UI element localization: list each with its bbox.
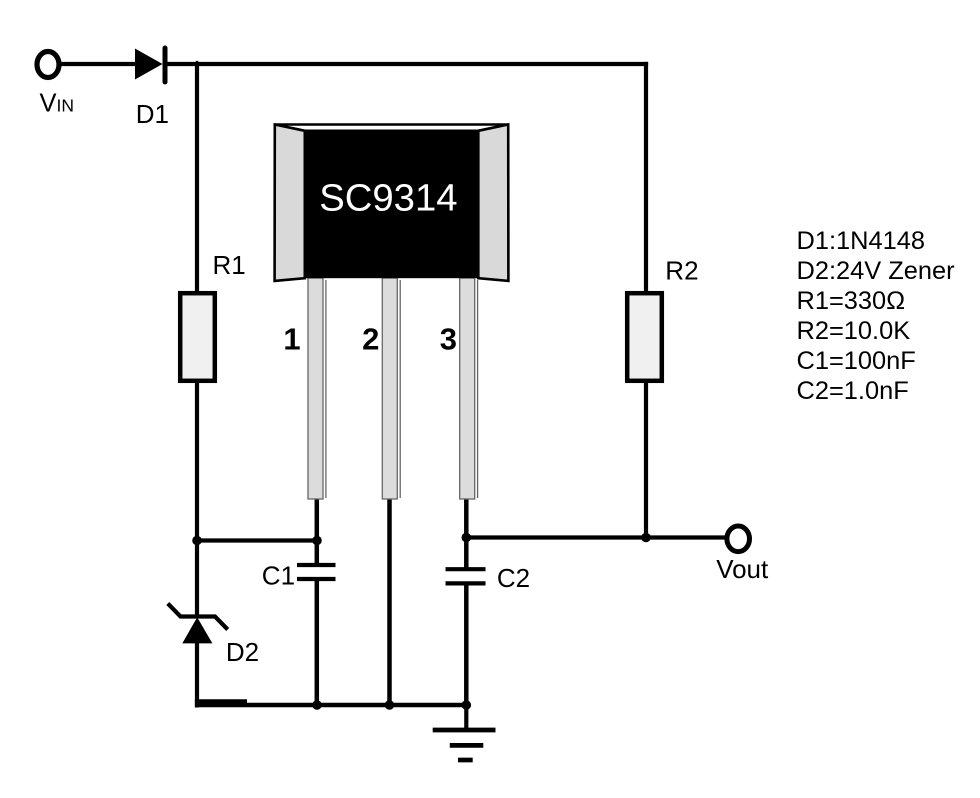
wire R2 bottom to Vout junction <box>644 383 648 538</box>
wire pin2 down <box>387 497 392 705</box>
package top face <box>275 125 508 131</box>
svg-text:Vout: Vout <box>716 554 769 584</box>
resistor R2 <box>627 293 662 381</box>
wire bottom rail <box>195 703 466 708</box>
svg-text:C2: C2 <box>497 563 530 593</box>
pin 1 <box>308 278 326 499</box>
svg-text:D1: D1 <box>136 99 169 129</box>
IC U1 SC9314 package <box>275 125 509 500</box>
wire R1 bottom to D2 <box>195 383 199 617</box>
terminal Vout <box>727 526 750 552</box>
node junction pin2/bottom <box>385 700 395 710</box>
resistor R1 <box>180 293 215 381</box>
wire pin1 down (above C1) <box>315 497 320 565</box>
svg-text:SC9314: SC9314 <box>319 177 457 220</box>
svg-text:C2=1.0nF: C2=1.0nF <box>797 377 909 405</box>
values text block <box>797 227 956 405</box>
wire C1 to bottom <box>315 579 320 705</box>
svg-text:D2: D2 <box>226 637 259 667</box>
wire junction to Vout terminal <box>646 535 726 539</box>
node junction pin1/C1 <box>312 536 322 546</box>
wire top-right corner down to R2 <box>644 62 648 293</box>
node junction R2/Vout <box>641 533 651 543</box>
svg-text:C1=100nF: C1=100nF <box>797 347 916 375</box>
svg-text:2: 2 <box>362 322 379 357</box>
svg-text:D2:24V Zener: D2:24V Zener <box>797 257 956 285</box>
pin 3 <box>460 278 478 499</box>
svg-text:R2=10.0K: R2=10.0K <box>797 317 911 345</box>
wire D1 to top-right corner <box>167 62 648 66</box>
wire rail overlap segment <box>195 699 247 703</box>
zener diode D2 <box>168 604 228 644</box>
svg-text:C1: C1 <box>262 561 295 591</box>
capacitor C2 <box>446 569 486 583</box>
wire pin3 down (above C2) <box>464 497 469 569</box>
ground <box>433 705 496 760</box>
wire C2 to bottom <box>464 583 469 705</box>
wire R1 junction to C1 junction <box>197 538 317 542</box>
diode D1 <box>135 48 165 82</box>
capacitor C1 <box>297 565 336 579</box>
wire tee stub <box>196 61 199 64</box>
wire pin3 junction to R2 junction <box>466 535 646 539</box>
pin 2 <box>382 278 400 499</box>
package body <box>305 131 479 279</box>
svg-text:R2: R2 <box>665 256 698 286</box>
svg-text:3: 3 <box>440 322 457 357</box>
svg-text:R1: R1 <box>213 250 246 280</box>
node junction R1/C1 wire <box>192 536 202 546</box>
svg-text:D1:1N4148: D1:1N4148 <box>797 227 925 255</box>
wire D2 to bottom wire <box>195 643 199 708</box>
wire VIN to D1 <box>62 62 137 66</box>
package left tab <box>275 125 305 281</box>
terminal VIN <box>37 52 59 78</box>
node junction pin3/Vout wire <box>462 533 472 543</box>
svg-text:R1=330Ω: R1=330Ω <box>797 287 906 315</box>
wire top tee down to R1 <box>195 64 199 293</box>
svg-text:1: 1 <box>283 322 300 357</box>
node junction pin1/bottom <box>312 700 322 710</box>
package right tab <box>478 125 508 281</box>
node junction ground <box>462 700 472 710</box>
